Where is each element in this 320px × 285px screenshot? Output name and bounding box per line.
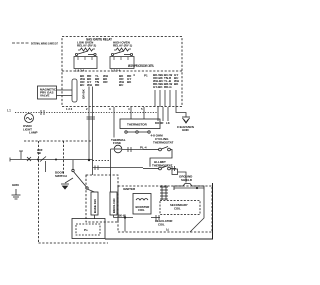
relay RY2 coil	[78, 48, 95, 51]
svg-text:GRN: GRN	[12, 183, 19, 187]
hi-limit thermostat switch	[143, 166, 176, 170]
shield junction dot	[196, 187, 198, 189]
wire D down to thermistor	[143, 107, 145, 119]
wire fuse down	[111, 149, 114, 192]
svg-text:1 2 3 4: 1 2 3 4	[111, 69, 121, 73]
dashed vertical short	[63, 141, 65, 175]
connector block P2 wire labels	[119, 74, 132, 87]
earth ground	[12, 189, 21, 199]
wire into booster	[114, 217, 134, 219]
door switch pivot	[72, 169, 74, 171]
svg-text:WH: WH	[87, 83, 92, 87]
stub connector up	[19, 151, 23, 159]
svg-text:COIL: COIL	[158, 222, 165, 226]
junction dot 3	[88, 159, 90, 161]
wire B down	[92, 87, 94, 176]
burner inner dashed	[76, 224, 100, 235]
cycling thermostat label	[153, 137, 174, 144]
plug PL-1	[172, 166, 175, 171]
L1 connector ticks	[41, 110, 44, 115]
svg-text:IGNITER: IGNITER	[123, 187, 136, 191]
plug on wire pair	[87, 117, 96, 119]
svg-text:BAKE IGN: BAKE IGN	[93, 199, 97, 213]
svg-text:1 2 3: 1 2 3	[66, 107, 73, 111]
svg-text:RELAY (RY-1): RELAY (RY-1)	[113, 44, 132, 48]
svg-text:RELAY (RY-2): RELAY (RY-2)	[77, 44, 96, 48]
door switch blade	[74, 172, 86, 187]
svg-text:PL-4: PL-4	[140, 145, 147, 149]
wire junction down	[124, 218, 126, 232]
wire lamp line to hi-limit	[93, 167, 144, 169]
block C underline wires	[155, 90, 170, 107]
door ground symbol	[61, 184, 69, 189]
terminal numbers under control box	[66, 107, 143, 111]
svg-text:COIL: COIL	[174, 206, 181, 210]
wire hi-limit to shield	[178, 172, 187, 183]
door switch ground wire	[65, 178, 73, 183]
svg-text:COIL: COIL	[138, 208, 145, 212]
LOF TB label	[37, 148, 43, 155]
feed wire end tick	[9, 158, 11, 162]
dashed wire right of junction	[93, 160, 111, 162]
ground shield label	[179, 175, 193, 183]
thermal fuse label	[111, 138, 126, 145]
chassis ground arrow	[182, 117, 190, 123]
svg-text:GND: GND	[182, 128, 190, 132]
svg-text:DOOR: DOOR	[155, 121, 163, 125]
svg-text:OR-BK: OR-BK	[82, 88, 86, 99]
divider dashed line	[62, 70, 182, 72]
svg-text:EXTERNAL WIRING 3 WIRE CKT: EXTERNAL WIRING 3 WIRE CKT	[31, 41, 58, 45]
plug marks	[156, 215, 159, 220]
microprocessor control dashed box	[62, 37, 182, 107]
wire A down	[88, 87, 90, 161]
wire C down to thermistor	[130, 107, 132, 119]
svg-text:RD-G: RD-G	[164, 85, 172, 89]
relay RY1 terminals	[114, 57, 128, 61]
igniter module dashed box	[118, 186, 212, 232]
wire thermistor to fuse	[113, 107, 115, 138]
valve wire lower	[57, 95, 73, 97]
wire label BK vertical	[82, 88, 86, 99]
thermal fuse symbol	[114, 145, 122, 153]
broil igniter element	[110, 192, 117, 215]
svg-text:P1: P1	[144, 74, 148, 78]
relay RY2 label	[77, 41, 96, 48]
svg-text:FUSE: FUSE	[113, 141, 121, 145]
fuse wire right	[122, 149, 143, 151]
lamp filament	[26, 117, 32, 119]
legend dash sample	[12, 42, 30, 44]
relay RY1 box	[110, 57, 134, 69]
oven lamp	[25, 114, 34, 123]
connector P5	[72, 79, 77, 102]
primary coil hatched	[160, 185, 168, 200]
bake igniter element	[91, 192, 98, 215]
right edge wire	[190, 190, 204, 232]
shield top wire	[174, 187, 204, 189]
relay RY1 coil	[114, 48, 131, 51]
thermistor sensor terminals	[125, 131, 150, 133]
wire H to ground	[176, 90, 186, 117]
booster coil box	[133, 194, 151, 215]
connector block P3 wire labels	[80, 74, 108, 87]
broil igniter bottom wire	[113, 215, 115, 218]
junction dot	[37, 159, 39, 161]
wire G stub	[167, 107, 169, 121]
magnetic gas valve text	[40, 88, 57, 98]
secondary coil label	[170, 203, 188, 210]
secondary coil dashed rect	[160, 201, 200, 215]
connector box	[172, 169, 178, 175]
booster coil arcs	[136, 199, 148, 201]
neutral line	[105, 183, 213, 239]
igniters dashed box	[86, 175, 118, 222]
svg-text:SHIELD: SHIELD	[181, 178, 193, 182]
door switch stub	[72, 160, 74, 169]
bake igniter bottom wire	[94, 215, 96, 219]
regulator coil label	[155, 219, 172, 226]
dashed horizontal mid left	[24, 140, 91, 142]
svg-text:GY-BK: GY-BK	[153, 85, 163, 89]
svg-text:MICROPROCESSOR CNTRL: MICROPROCESSOR CNTRL	[128, 64, 154, 68]
L1 dotted line	[15, 112, 157, 114]
plug on lamp wire	[95, 166, 98, 171]
junction dot 2	[55, 159, 57, 161]
booster coil label	[136, 205, 150, 212]
svg-text:LAMP: LAMP	[29, 130, 38, 134]
svg-text:SWITCH: SWITCH	[55, 174, 67, 178]
junction dot booster	[124, 216, 126, 218]
short drop wire	[45, 161, 47, 172]
svg-text:LK: LK	[166, 121, 170, 125]
connector block P1 wire labels	[153, 73, 179, 89]
chassis ground label	[177, 125, 194, 132]
svg-text:BROIL IGN: BROIL IGN	[112, 199, 116, 213]
svg-text:Ps: Ps	[84, 228, 88, 232]
svg-text:1 2 3 4: 1 2 3 4	[75, 69, 85, 73]
switch blade small	[40, 157, 46, 162]
blade terminal	[86, 187, 88, 189]
thermistor box	[120, 119, 160, 129]
relay RY2 contact	[75, 51, 96, 56]
oven lamp label	[23, 124, 38, 134]
svg-text:N: N	[166, 228, 169, 232]
relay RY2 terminals	[78, 57, 92, 61]
hi-limit thermostat label	[152, 160, 173, 167]
door switch label	[55, 171, 67, 179]
plug PL-4	[128, 147, 131, 152]
shield housing	[174, 184, 204, 191]
relay RY1 contact	[111, 51, 132, 56]
wire blade to bake igniter	[87, 189, 95, 192]
magnetic gas valve box	[38, 86, 57, 99]
fuse element	[115, 148, 121, 150]
svg-text:L1: L1	[7, 109, 11, 113]
svg-text:BU: BU	[80, 83, 84, 87]
wire stub labels	[155, 121, 170, 125]
svg-text:BU: BU	[119, 83, 123, 87]
bake burner box	[72, 219, 105, 239]
relay RY1 label	[113, 41, 132, 48]
relay RY2 box	[74, 57, 97, 69]
svg-text:THERMOSTAT: THERMOSTAT	[153, 140, 174, 144]
wire F stub	[162, 107, 164, 121]
valve wire upper	[57, 89, 73, 91]
wire E stub	[157, 107, 159, 121]
cycling thermostat switch	[143, 147, 172, 167]
svg-text:THERMISTOR: THERMISTOR	[127, 123, 148, 127]
fuse wire left	[111, 148, 115, 150]
L2 feed wire	[10, 159, 93, 161]
wire booster to regulator	[151, 217, 160, 219]
dashed vertical left loop	[38, 141, 40, 243]
svg-text:VALVE: VALVE	[40, 94, 50, 98]
wire nut	[27, 157, 31, 161]
dashed bottom loop	[39, 242, 109, 244]
